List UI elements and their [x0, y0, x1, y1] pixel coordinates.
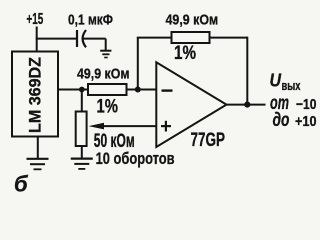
resistor R1 tolerance label 1% [174, 43, 196, 64]
voltage reference U1 LM369DZ [12, 52, 58, 137]
wiper arrow wire to op-amp non-inverting input [89, 123, 157, 130]
wire branch to capacitor C1 [36, 38, 77, 40]
wire potentiometer to ground [81, 146, 83, 158]
resistor R1 49,9 кОм feedback [172, 32, 210, 43]
svg-text:0,1 мкФ: 0,1 мкФ [68, 12, 113, 29]
output voltage label U vyh [270, 70, 302, 93]
resistor R2 value label 49,9 кОм [77, 66, 130, 83]
wire net A: regulator output to op-amp inverting input [58, 89, 157, 91]
node +15 label [27, 11, 44, 28]
figure part label б [14, 172, 29, 197]
svg-text:1%: 1% [97, 97, 119, 118]
svg-text:10 оборотов: 10 оборотов [96, 149, 175, 168]
svg-text:49,9 кОм: 49,9 кОм [77, 66, 130, 83]
ground (regulator U1) [27, 159, 49, 170]
wire potentiometer branch [81, 90, 83, 113]
svg-text:−10: −10 [296, 97, 317, 113]
wire feedback riser [137, 38, 139, 90]
svg-text:+15: +15 [27, 11, 44, 28]
junction dot output node [244, 102, 250, 108]
resistor R2 tolerance label 1% [97, 97, 119, 118]
capacitor C1 value label 0,1 мкФ [68, 12, 113, 29]
svg-text:вых: вых [282, 78, 302, 93]
wire top left to feedback resistor R1 [137, 37, 172, 39]
wire feedback drop to output node [246, 37, 248, 105]
capacitor C1 [77, 30, 86, 47]
junction dot inverting node [135, 87, 141, 93]
wire regulator to ground [37, 137, 39, 159]
op-amp U2 77GP [156, 62, 226, 147]
svg-text:1%: 1% [174, 43, 196, 64]
svg-text:49,9 кОм: 49,9 кОм [166, 11, 219, 28]
op-amp type label 77GP [191, 130, 226, 151]
wire output [227, 104, 266, 106]
wire capacitor to ground [84, 39, 106, 51]
resistor R2 49,9 кОм input [88, 84, 127, 95]
potentiometer R3 note label 10 оборотов [96, 149, 175, 168]
svg-text:+10: +10 [295, 114, 317, 130]
junction dot node A / potentiometer tap [79, 87, 85, 93]
potentiometer R3 body [76, 112, 87, 147]
wire +15 supply drop to regulator [36, 27, 38, 53]
ground (capacitor C1) [100, 51, 111, 58]
ground (potentiometer R3) [71, 159, 93, 169]
wire feedback resistor to output corner [210, 37, 248, 39]
svg-text:U: U [270, 70, 282, 90]
svg-text:77GP: 77GP [191, 130, 226, 151]
output range label line 1: от −10 [270, 93, 317, 114]
svg-text:б: б [14, 172, 29, 197]
potentiometer R3 value label 50 кОм [94, 131, 135, 152]
resistor R1 value label 49,9 кОм [166, 11, 219, 28]
output range label line 2: до +10 [273, 110, 317, 131]
svg-text:LM 369DZ: LM 369DZ [26, 57, 45, 133]
svg-text:до: до [273, 110, 290, 131]
